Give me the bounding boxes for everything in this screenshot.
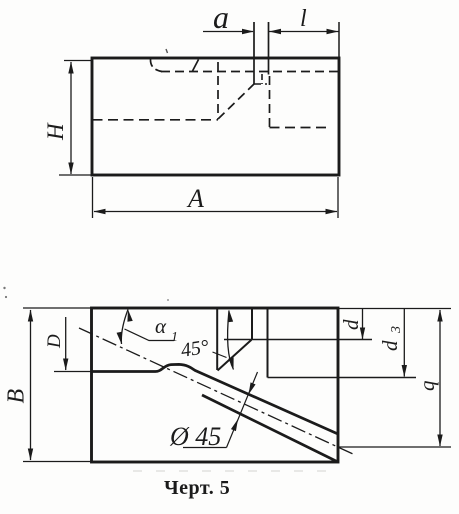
wire: top extension right [338, 308, 451, 310]
wire: q bottom extension [339, 446, 451, 448]
svg-text:d: d [339, 319, 363, 330]
hidden lower horizontal right [270, 127, 332, 129]
svg-text:3: 3 [389, 326, 404, 334]
svg-text:Черт. 5: Черт. 5 [164, 477, 230, 499]
svg-text:1: 1 [171, 330, 178, 345]
arrow alpha top [125, 309, 132, 322]
wire: extension line right end above body [338, 22, 340, 57]
counterbore bottom / d extension [224, 339, 372, 341]
hidden vertical center [217, 62, 219, 119]
svg-text:q: q [415, 380, 439, 391]
mouth vertical right [267, 308, 269, 378]
bottom view body outline [92, 308, 339, 462]
hidden short vertical in slot [261, 74, 263, 84]
mouth vertical middle [251, 308, 253, 340]
wire: H top extension [64, 60, 92, 62]
dimension q line [439, 310, 441, 446]
dimension A line [94, 211, 337, 213]
svg-text:a: a [213, 0, 229, 35]
hidden slot bottom [254, 83, 267, 85]
arrow d3 down [402, 365, 407, 377]
leader diameter 45 [227, 372, 258, 448]
hidden diagonal [218, 84, 254, 119]
centerline of inclined hole [79, 328, 353, 454]
leader 45 [213, 352, 227, 358]
svg-text:Ø 45: Ø 45 [169, 422, 221, 451]
speck 2 [5, 296, 7, 298]
arrow dia top [246, 382, 256, 395]
svg-text:A: A [186, 184, 204, 213]
arrow H down [68, 163, 73, 175]
speck 3 [167, 299, 169, 301]
wire: extension line left slot edge [253, 22, 255, 84]
arrow l left [269, 29, 281, 34]
dimension d3 line [403, 309, 405, 377]
dimension D line [65, 317, 67, 370]
arrow alpha bottom [117, 332, 125, 345]
wire: bottom extension left [23, 461, 92, 463]
svg-text:45°: 45° [179, 336, 210, 362]
step edge and hump and hole top edge [92, 364, 339, 434]
shelf under diameter 45 [183, 447, 227, 449]
arrow H up [68, 62, 73, 74]
dimension B line [30, 310, 32, 460]
wire: D extension [54, 371, 92, 373]
arrow B down [28, 449, 33, 461]
svg-text:α: α [155, 314, 167, 338]
hole bottom edge [202, 395, 338, 462]
hidden vertical right [269, 76, 271, 128]
arrow d down [360, 328, 365, 340]
wire: A left extension [92, 177, 94, 218]
dimension d line [362, 309, 364, 339]
speck 1 [3, 287, 5, 289]
wire: top extension left [23, 307, 92, 309]
svg-text:D: D [44, 334, 65, 349]
arrow A right [326, 209, 338, 214]
arrow q down [437, 435, 442, 447]
svg-text:H: H [43, 122, 68, 141]
arrow B up [28, 310, 33, 322]
lower ledge / d3 extension [268, 377, 417, 379]
chamfer 45 [218, 340, 252, 371]
dimension l line [269, 31, 339, 33]
arrow D down [63, 359, 68, 371]
hidden line upper horizontal [161, 71, 338, 73]
mouth vertical left [216, 308, 218, 370]
45 deg arc [228, 311, 234, 370]
wire: extension line right slot edge [268, 22, 270, 75]
dimension H line [70, 62, 72, 174]
svg-text:l: l [300, 6, 307, 32]
leader alpha [125, 329, 175, 341]
hidden curve left [150, 59, 162, 72]
hidden lower horizontal left [93, 119, 219, 121]
svg-text:В: В [4, 389, 30, 404]
faint scan row [133, 470, 333, 472]
speck 4 [166, 49, 168, 53]
arrow A left [94, 209, 106, 214]
wire: H bottom extension [59, 174, 92, 176]
arrow 45 bottom [228, 358, 236, 371]
hidden slant to top edge [193, 60, 199, 72]
dimension a line [203, 31, 253, 33]
arrow a [242, 29, 254, 34]
top view body outline [92, 58, 339, 175]
arrow l right [327, 29, 339, 34]
arrow dia bottom [231, 418, 241, 431]
arrow 45 top [226, 310, 233, 323]
arrow q up [437, 310, 442, 322]
wire: A right extension [337, 177, 339, 218]
alpha1 arc [121, 310, 128, 345]
svg-text:d: d [378, 340, 402, 351]
